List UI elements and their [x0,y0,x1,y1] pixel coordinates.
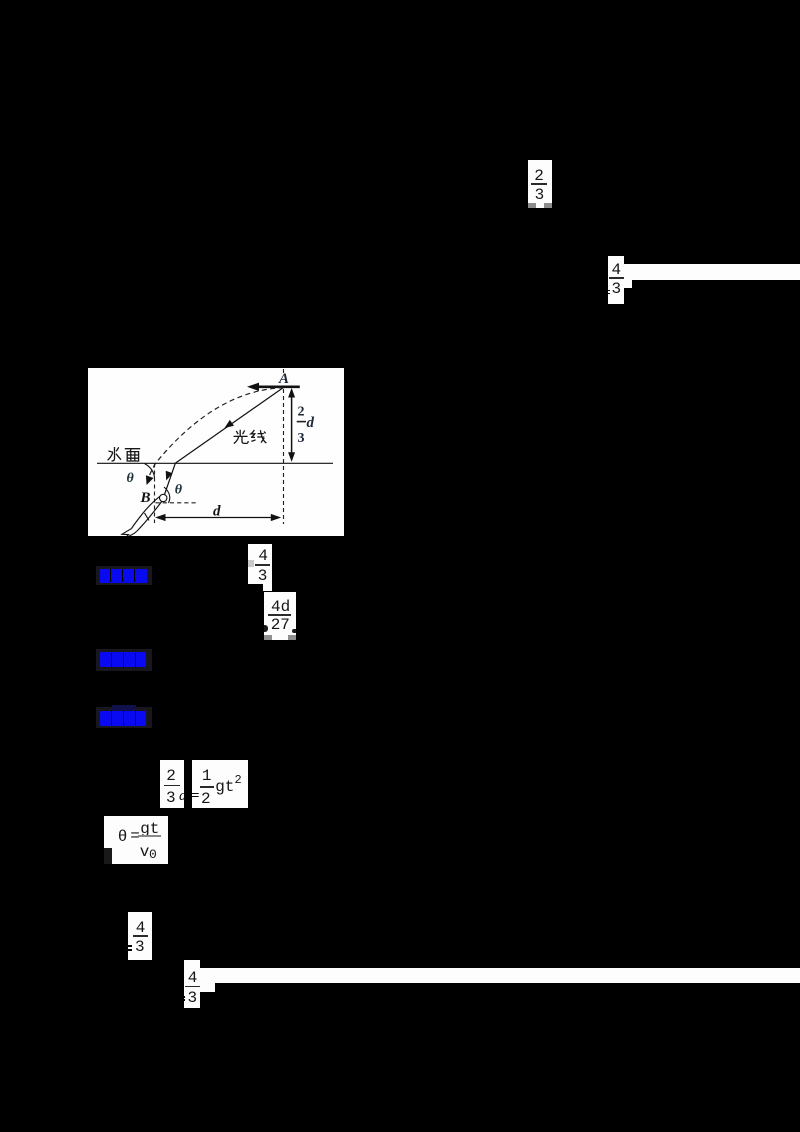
water surface line [97,462,333,464]
grey artifacts bottom corners of 2/3 box [528,203,536,208]
grey artifact left of bar [248,560,254,567]
measure arrow 2/3 d (vertical double arrow) [291,394,293,456]
svg-text:d: d [307,415,315,431]
grey artifacts bottom corners of 4d/27 box [264,635,272,640]
blue label 1 halo [96,566,152,585]
label 光线 (light ray), drawn strokes [234,430,267,444]
svg-text:θ: θ [175,483,183,498]
svg-text:θ: θ [127,471,135,486]
top horizontal velocity line with left arrow [254,385,300,388]
diagram image (physics figure) [88,368,344,536]
fish outline [122,494,167,539]
dark glyph fragments on 4d/27 box edges [264,625,268,632]
white strip of wide equation image [624,264,800,280]
blue label 2 [100,652,146,667]
equation image: fraction 4/3 (=4/3) [128,912,152,960]
equation image: fraction 2/3 (in formula line) [160,760,183,808]
equation image: fraction 4/3 with long white strip (top right) [608,256,624,304]
svg-text:A: A [278,371,289,387]
equation image: fraction 2/3 (top) [528,160,552,208]
label 水面 (water surface), drawn strokes [108,447,141,461]
ghost text d= between equation images [179,789,187,804]
blue label 2 halo [96,649,152,671]
horizontal dashed from B [156,502,196,504]
dark block artifact bottom-left of theta box [104,848,112,864]
light ray A to surface [175,387,283,463]
svg-text:3: 3 [298,431,305,446]
white strip of wide equation image (bottom) [200,968,800,983]
equation image: fraction 4/3 (answer a) [248,544,272,584]
blue label 1 [100,569,147,583]
svg-text:B: B [140,490,151,506]
equation image: theta = gt / v0 [104,816,168,864]
ghost ':' fragments at box edge [183,996,185,998]
vertical dashed under A [283,369,285,524]
dashed trajectory from A into water [149,388,284,478]
svg-text:d: d [213,504,221,520]
equation image: 1/2 g t^2 [192,760,248,808]
equation image: fraction 4/3 with long strip (bottom) [184,960,200,1008]
equation image: fraction 4d/27 [264,592,296,640]
blue label 3 halo [96,707,152,728]
arc at B [164,487,170,503]
ghost '=' fragment at box edge [126,945,133,947]
arc between surface and trajectory [145,464,155,479]
ghost '=' fragment at box edge [607,290,609,292]
d measure arrow (horizontal double arrow) [158,517,278,519]
svg-text:2: 2 [298,405,305,420]
refracted ray to fish [165,463,176,494]
blue label 3 [100,711,146,726]
vertical dashed at B [154,464,156,524]
blue label 3 top bump [112,705,136,712]
